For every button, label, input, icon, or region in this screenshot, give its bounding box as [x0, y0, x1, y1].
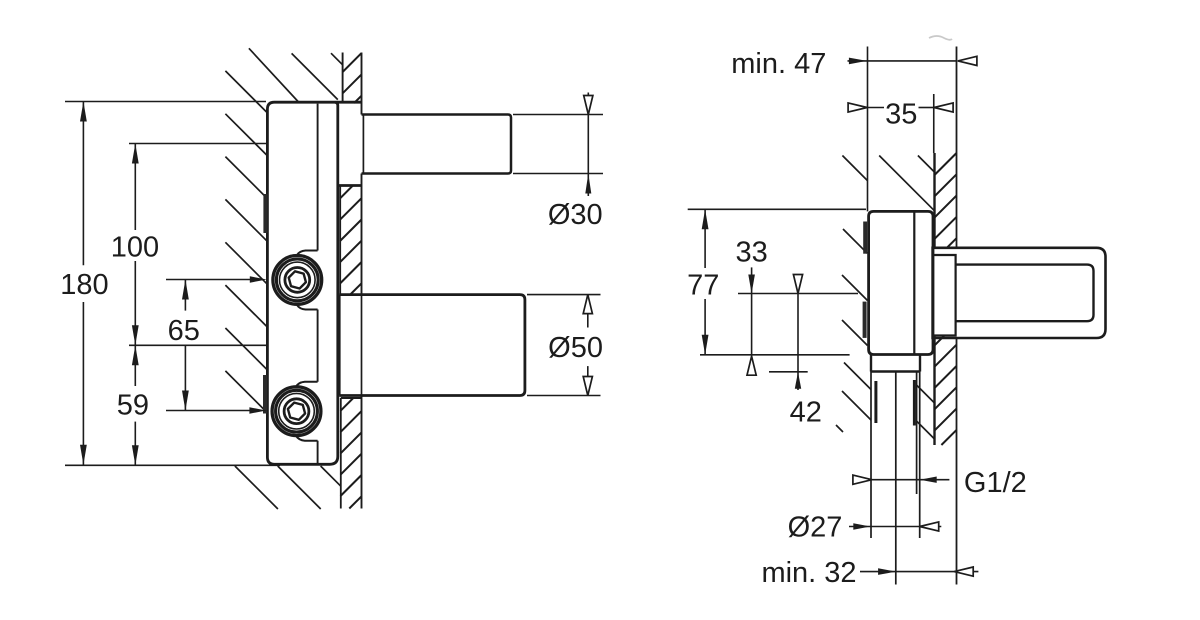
- upper knob screw: [273, 256, 322, 305]
- extension line 77 top: [688, 208, 866, 210]
- mounting tab upper (left view): [263, 194, 267, 233]
- knob pocket hooks: [297, 251, 318, 256]
- handle escutcheon: [933, 255, 956, 336]
- dimension 65: [184, 280, 186, 311]
- extension line upper knob axis: [166, 279, 252, 281]
- svg-text:Ø27: Ø27: [788, 511, 843, 543]
- extension line 100 bottom / 59 top: [129, 344, 267, 346]
- svg-text:77: 77: [687, 269, 719, 301]
- lower spout Ø50: [339, 295, 525, 396]
- upper spout Ø30: [362, 115, 512, 174]
- svg-text:65: 65: [168, 315, 200, 347]
- svg-text:Ø50: Ø50: [548, 332, 603, 364]
- mounting tab lower (right view): [863, 302, 867, 338]
- pipe thread bars: [874, 381, 877, 423]
- handle outer outline: [933, 248, 1106, 338]
- extension line body bottom: [700, 354, 850, 356]
- svg-text:59: 59: [117, 390, 149, 422]
- wall face line (left view): [361, 53, 363, 115]
- dimension 33: [751, 267, 753, 356]
- step line in wall hole: [338, 184, 362, 187]
- extension line handle axis: [738, 293, 858, 295]
- handle inner outline: [956, 265, 1094, 322]
- lower knob screw: [272, 387, 321, 436]
- mounting tab lower (left view): [263, 375, 267, 414]
- wall break mark: [929, 36, 952, 40]
- mounting tab upper (right view): [863, 222, 867, 254]
- outlet flange (right view): [870, 355, 872, 372]
- valve body (left view): [267, 102, 361, 464]
- svg-text:33: 33: [735, 237, 767, 269]
- svg-text:35: 35: [885, 99, 917, 131]
- dimension Ø50: [527, 294, 601, 296]
- dimension Ø27: [849, 526, 941, 528]
- dimension 59: [134, 345, 136, 386]
- svg-text:42: 42: [790, 397, 822, 429]
- svg-text:min. 47: min. 47: [731, 48, 826, 80]
- pipe inner lines: [895, 372, 897, 585]
- upper spout flange line: [362, 115, 364, 174]
- wall hatch below body (left view): [235, 466, 278, 509]
- pipe outer walls: [870, 372, 872, 539]
- dimension Ø30: [513, 114, 603, 116]
- extension line outlet flange bottom: [769, 371, 808, 373]
- lower spout flange line: [361, 295, 363, 396]
- wall hatch above body (left view): [249, 48, 299, 102]
- dimension 77: [704, 209, 706, 268]
- valve body (right view): [869, 211, 933, 354]
- dimension G1/2: [856, 479, 872, 481]
- extension line 180 bottom: [65, 464, 280, 466]
- extension line lower knob axis: [166, 410, 252, 412]
- svg-text:G1/2: G1/2: [964, 467, 1027, 499]
- body cartridge line (right view): [913, 211, 915, 354]
- wall plaster strip hatch (left view): [343, 53, 362, 72]
- svg-text:180: 180: [60, 269, 108, 301]
- extension line 180 top: [65, 101, 266, 103]
- extension line body back plane: [867, 47, 869, 212]
- svg-text:100: 100: [111, 231, 159, 263]
- dimension 100: [134, 144, 136, 231]
- wall left face (right view): [933, 153, 935, 248]
- wall hatch left of body (left view): [225, 71, 267, 113]
- dimension 35: [848, 107, 885, 109]
- svg-text:Ø30: Ø30: [548, 199, 603, 231]
- extension line 100 top: [129, 143, 267, 145]
- dimension 180: [82, 102, 84, 266]
- wall hatch around body (right view): [842, 156, 867, 181]
- extension line wall front: [933, 94, 935, 153]
- wall hole edge above body: [342, 53, 344, 104]
- wall right face (right view): [956, 47, 958, 249]
- dimension min. 47: [848, 60, 958, 62]
- body inner edge line: [317, 104, 319, 251]
- svg-text:min. 32: min. 32: [761, 557, 856, 589]
- dimension 42: [797, 294, 799, 391]
- dimension min. 32: [860, 571, 978, 573]
- wall hole edge beside body: [339, 186, 341, 295]
- wall finish strip hatch (right view): [935, 153, 957, 175]
- step line below lower spout: [341, 397, 362, 399]
